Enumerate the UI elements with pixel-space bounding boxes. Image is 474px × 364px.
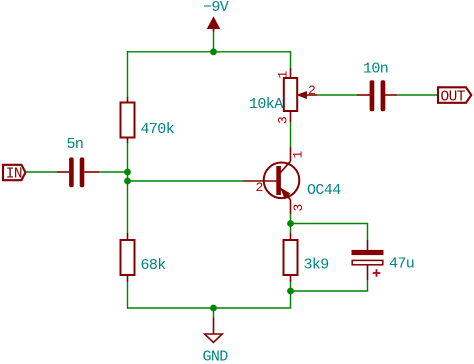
wire emitter node down <box>290 224 292 234</box>
wire IN to capacitor <box>26 171 58 173</box>
svg-text:470k: 470k <box>141 121 175 138</box>
node junction emitter <box>287 220 294 227</box>
wire pot pin3 to transistor <box>290 122 292 147</box>
svg-text:2: 2 <box>308 83 316 98</box>
port IN <box>3 165 26 183</box>
svg-text:1: 1 <box>291 151 306 159</box>
wire power stem <box>213 30 215 52</box>
node junction IN wire <box>124 169 131 176</box>
power symbol -9V <box>203 0 229 32</box>
svg-text:OUT: OUT <box>441 89 466 105</box>
svg-text:2: 2 <box>256 180 264 195</box>
resistor R? 470k <box>121 97 175 143</box>
svg-text:3: 3 <box>291 204 306 212</box>
capacitor C? 5n <box>57 136 99 187</box>
node junction bottom right <box>287 288 294 295</box>
wire capacitor to node <box>99 171 128 173</box>
wire cap to OUT <box>397 94 437 96</box>
wire left vertical upper <box>127 51 129 97</box>
svg-text:OC44: OC44 <box>307 182 341 199</box>
node junction GND <box>210 305 217 312</box>
potentiometer RV? 10kA <box>249 68 317 124</box>
wire emitter down <box>290 214 292 224</box>
svg-text:−9V: −9V <box>203 0 229 16</box>
svg-text:3k9: 3k9 <box>304 257 329 274</box>
resistor R? 68k <box>121 233 167 282</box>
node junction at -9V <box>210 48 217 55</box>
svg-text:3: 3 <box>276 116 291 124</box>
transistor Q? OC44 <box>243 147 341 214</box>
resistor R? 3k9 <box>284 233 329 282</box>
svg-text:10kA: 10kA <box>249 96 283 113</box>
wire top rail <box>128 51 291 53</box>
svg-text:10n: 10n <box>363 61 388 78</box>
svg-text:47u: 47u <box>389 256 414 273</box>
svg-text:IN: IN <box>6 166 22 182</box>
port OUT <box>438 87 471 105</box>
wire bottom rail <box>128 291 291 308</box>
wire left vertical lower <box>127 282 129 309</box>
wire pot top <box>290 51 292 68</box>
node junction base wire <box>124 178 131 185</box>
wire pot wiper to cap <box>317 94 357 96</box>
capacitor C? 10n <box>357 61 397 112</box>
wire 3k9 to bottom node <box>290 282 292 291</box>
svg-text:5n: 5n <box>67 136 84 153</box>
svg-text:GND: GND <box>203 349 229 364</box>
svg-text:68k: 68k <box>141 257 167 274</box>
svg-text:1: 1 <box>276 71 291 79</box>
wire to transistor base <box>128 180 244 182</box>
ground symbol GND <box>203 318 229 364</box>
capacitor C? 47u polarized <box>352 240 415 280</box>
wire 47u to bottom <box>291 280 368 291</box>
wire emitter node to 47u <box>291 224 368 241</box>
wire left vertical middle <box>127 143 129 233</box>
wire GND stem <box>213 308 215 318</box>
